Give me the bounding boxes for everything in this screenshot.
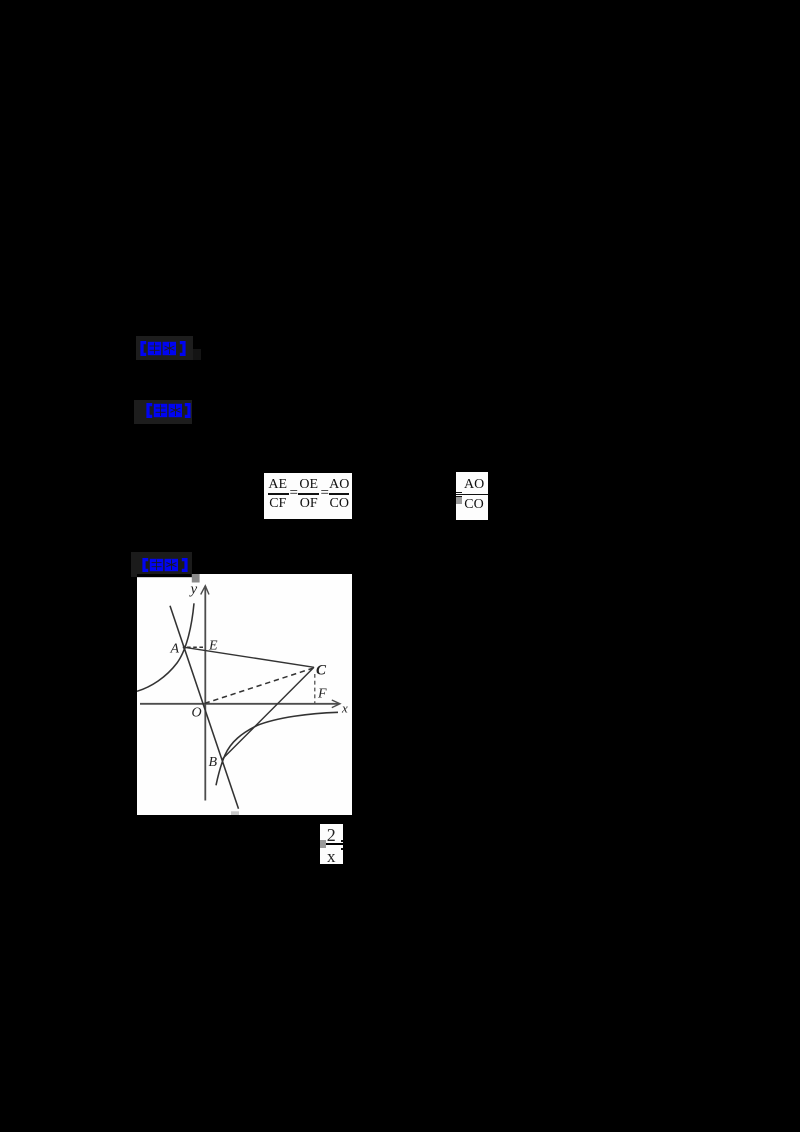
hyperbola lower-right branch: [216, 712, 338, 785]
svg-text:x: x: [341, 700, 348, 715]
dashed C-F vertical: [314, 674, 316, 703]
figure: coordinate-plane graph: [137, 574, 352, 815]
bottom smudge artifact: [231, 811, 239, 815]
line BC: [223, 667, 314, 759]
label badge 1 backing: [136, 336, 193, 361]
svg-text:E: E: [208, 638, 218, 653]
formula image 1: AE/CF = OE/OF = AO/CO: [264, 473, 352, 520]
formula image 2: = AO/CO: [456, 472, 488, 520]
dashed A-E: [187, 646, 205, 648]
label badge 2 blue text: [146, 403, 191, 418]
svg-text:O: O: [192, 705, 202, 720]
svg-text:A: A: [170, 641, 180, 656]
formula image 3: 2/x: [320, 824, 344, 864]
hyperbola upper-left branch: [137, 603, 194, 691]
svg-text:C: C: [316, 662, 327, 678]
line AB: [170, 605, 239, 808]
label badge 2 backing: [134, 400, 192, 425]
label badge 3 backing: [131, 552, 192, 578]
gray artifact square at top: [192, 574, 200, 583]
svg-text:y: y: [189, 581, 198, 597]
label badge 3 blue text: [142, 558, 188, 572]
point A dot: [183, 645, 186, 648]
dashed O-C: [205, 668, 313, 703]
svg-text:F: F: [317, 686, 327, 701]
line AC: [184, 647, 314, 667]
black notch top-left where badge3 overlaps: [137, 574, 192, 577]
y-axis: [204, 586, 206, 801]
label badge 1 blue text: [140, 341, 186, 356]
x-axis: [140, 702, 339, 704]
svg-text:B: B: [209, 755, 218, 770]
